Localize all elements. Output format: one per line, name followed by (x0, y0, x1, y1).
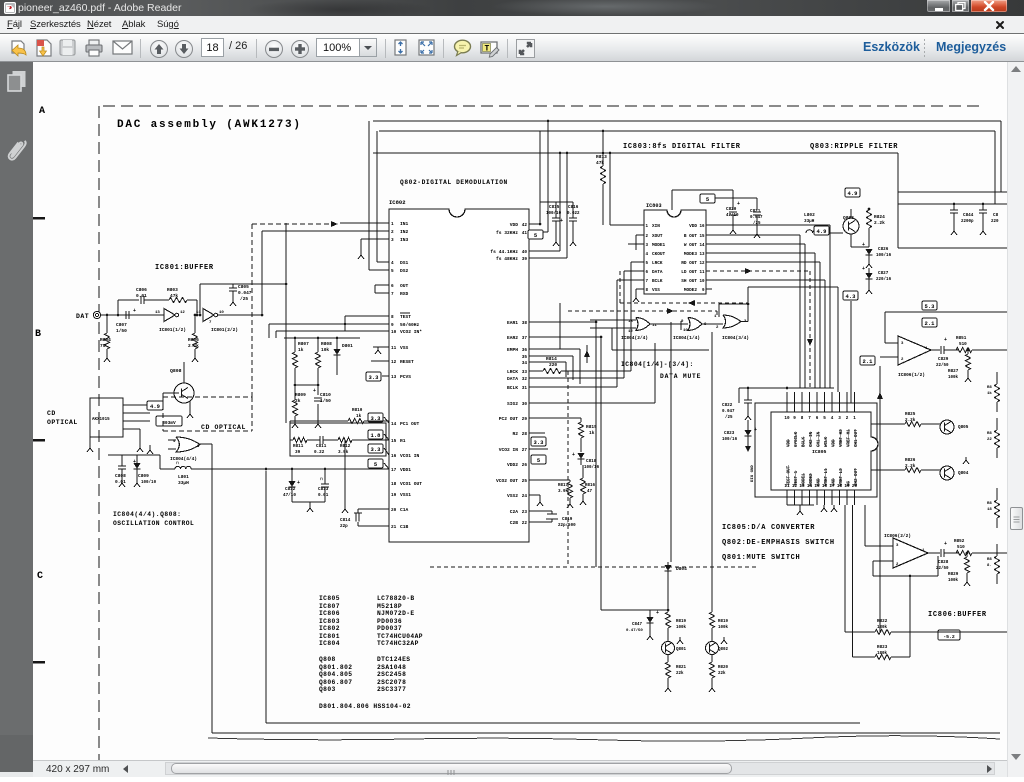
svg-text:C811: C811 (316, 444, 327, 449)
svg-text:C818: C818 (586, 459, 597, 464)
svg-text:R825: R825 (905, 412, 916, 417)
svg-text:IC804(2/4): IC804(2/4) (621, 335, 648, 341)
svg-text:47: 47 (587, 490, 593, 494)
svg-text:10: 10 (391, 330, 397, 335)
svg-text:R808: R808 (321, 341, 332, 347)
svg-text:+: + (560, 218, 563, 224)
svg-text:3.3: 3.3 (534, 439, 545, 446)
svg-text:303mV: 303mV (162, 420, 176, 426)
svg-text:CD OPTICAL: CD OPTICAL (201, 424, 246, 431)
svg-text:DATA MUTE: DATA MUTE (660, 373, 701, 380)
svg-text:D801.804.806 HSS104-02: D801.804.806 HSS104-02 (319, 703, 411, 710)
svg-text:VCO2 IN: VCO2 IN (499, 447, 519, 453)
svg-text:Q803: Q803 (319, 686, 336, 693)
svg-text:C815: C815 (549, 205, 560, 210)
svg-text:75: 75 (100, 343, 106, 349)
svg-text:1: 1 (391, 222, 394, 227)
svg-text:A: A (39, 106, 45, 117)
svg-text:C810: C810 (320, 392, 331, 398)
svg-text:Q805: Q805 (958, 425, 969, 430)
svg-text:fs 32KHz: fs 32KHz (496, 230, 518, 236)
svg-text:28: 28 (522, 432, 528, 437)
svg-text:IN3: IN3 (400, 237, 409, 243)
svg-text:CKOUT: CKOUT (652, 252, 666, 257)
svg-text:50/60Hz: 50/60Hz (400, 322, 420, 328)
svg-text:+: + (944, 337, 947, 343)
svg-text:B OUT: B OUT (684, 234, 698, 239)
svg-text:C: C (37, 571, 43, 582)
svg-text:W OUT: W OUT (684, 243, 698, 248)
svg-text:OSCILLATION CONTROL: OSCILLATION CONTROL (113, 520, 194, 527)
svg-text:EAR2: EAR2 (507, 335, 518, 341)
svg-text:21: 21 (391, 525, 397, 530)
svg-text:C844: C844 (963, 213, 974, 218)
svg-text:32: 32 (522, 377, 528, 382)
svg-text:L801: L801 (178, 474, 189, 480)
svg-text:R8: R8 (987, 502, 992, 506)
svg-text:33: 33 (522, 370, 528, 375)
svg-text:C828: C828 (938, 560, 949, 565)
svg-text:IC806(1/2): IC806(1/2) (898, 372, 925, 378)
svg-text:R826: R826 (905, 458, 916, 463)
svg-text:Q808: Q808 (170, 368, 182, 374)
svg-text:+: + (944, 541, 947, 547)
svg-text:R803: R803 (167, 287, 178, 293)
svg-text:AKX1015: AKX1015 (92, 418, 110, 422)
svg-text:100k: 100k (676, 625, 687, 630)
svg-text:10k: 10k (321, 347, 329, 353)
svg-text:R827: R827 (948, 369, 959, 374)
svg-text:510: 510 (959, 342, 967, 347)
svg-text:PD0037: PD0037 (377, 625, 402, 632)
svg-text:R851: R851 (956, 336, 967, 341)
svg-text:D804: D804 (676, 566, 687, 572)
svg-text:13: 13 (699, 253, 705, 257)
svg-text:18: 18 (391, 482, 397, 487)
svg-text:R811: R811 (293, 444, 304, 449)
svg-text:R8: R8 (987, 432, 992, 436)
svg-text:6: 6 (816, 416, 819, 421)
svg-text:12: 12 (699, 262, 705, 266)
svg-text:+: + (656, 610, 659, 616)
svg-text:1.8: 1.8 (371, 432, 382, 439)
svg-text:C827: C827 (878, 271, 889, 276)
svg-text:22/50: 22/50 (936, 566, 949, 571)
svg-text:16: 16 (391, 454, 397, 459)
svg-text:+: + (754, 427, 757, 433)
svg-text:22p/500: 22p/500 (558, 523, 576, 528)
svg-text:11: 11 (652, 324, 657, 328)
svg-text:IC806(2/2): IC806(2/2) (884, 533, 911, 539)
svg-text:0.022: 0.022 (567, 212, 580, 216)
svg-text:SIG2: SIG2 (507, 401, 518, 407)
svg-text:IC801:BUFFER: IC801:BUFFER (155, 264, 214, 272)
svg-text:C822: C822 (722, 403, 733, 408)
svg-text:100k: 100k (948, 375, 959, 380)
svg-text:C2A: C2A (510, 509, 519, 515)
svg-text:12: 12 (180, 311, 185, 315)
svg-text:IN2: IN2 (400, 229, 409, 235)
svg-text:R1: R1 (400, 438, 406, 444)
svg-text:NJM072D-E: NJM072D-E (377, 610, 415, 617)
svg-text:C812: C812 (285, 487, 296, 492)
svg-text:3: 3 (838, 416, 841, 421)
svg-text:XOUT: XOUT (652, 234, 663, 239)
svg-text:12: 12 (391, 360, 397, 365)
svg-text:C8: C8 (993, 213, 999, 218)
svg-text:11: 11 (784, 484, 790, 489)
svg-text:+: + (572, 452, 575, 458)
svg-text:10: 10 (784, 416, 790, 421)
svg-text:B: B (35, 329, 41, 340)
svg-text:2SA1048: 2SA1048 (377, 664, 406, 671)
svg-text:-5.2: -5.2 (943, 634, 955, 640)
svg-text:220: 220 (991, 220, 999, 224)
svg-text:22k: 22k (718, 671, 726, 676)
svg-text:3.9k: 3.9k (558, 489, 569, 494)
svg-text:R824: R824 (874, 214, 885, 220)
svg-text:VSS2: VSS2 (507, 493, 518, 499)
svg-text:22p: 22p (340, 524, 348, 529)
svg-text:220/16: 220/16 (876, 277, 892, 282)
svg-text:+: + (313, 388, 316, 394)
svg-text:14: 14 (807, 484, 813, 489)
svg-text:40: 40 (522, 250, 528, 255)
svg-text:IC805: IC805 (319, 595, 340, 602)
svg-text:OUT: OUT (400, 283, 409, 289)
svg-text:L802: L802 (804, 212, 815, 218)
svg-text:4: 4 (831, 416, 834, 421)
svg-text:22/50: 22/50 (936, 363, 949, 368)
svg-text:C807: C807 (116, 322, 127, 328)
svg-text:1: 1 (853, 416, 856, 421)
svg-text:30: 30 (522, 402, 528, 407)
svg-text:2SC3377: 2SC3377 (377, 686, 406, 693)
svg-text:8: 8 (801, 416, 804, 421)
svg-text:MODE2: MODE2 (684, 288, 698, 293)
svg-text:24: 24 (522, 494, 528, 499)
svg-text:LRCK: LRCK (507, 369, 518, 375)
svg-text:BCLK: BCLK (507, 385, 518, 391)
svg-text:Q804.805: Q804.805 (319, 671, 352, 678)
svg-text:M5218P: M5218P (377, 603, 402, 610)
svg-text:R820: R820 (718, 666, 729, 670)
svg-text:C814: C814 (340, 518, 351, 523)
svg-text:2200p: 2200p (961, 220, 974, 224)
svg-text:5.3: 5.3 (925, 303, 936, 310)
svg-text:R8: R8 (987, 386, 992, 390)
svg-text:15: 15 (699, 235, 705, 239)
svg-text:R8: R8 (987, 558, 992, 562)
svg-text:12: 12 (792, 484, 798, 489)
svg-text:PC1 OUT: PC1 OUT (400, 421, 420, 427)
svg-text:16: 16 (699, 225, 705, 229)
svg-text:DS1: DS1 (400, 260, 409, 266)
svg-text:2: 2 (846, 416, 849, 421)
svg-text:12: 12 (628, 330, 633, 334)
svg-text:11: 11 (699, 271, 705, 275)
svg-text:DS2: DS2 (400, 268, 409, 274)
svg-text:C809: C809 (138, 473, 149, 479)
svg-text:31: 31 (522, 386, 528, 391)
svg-text:IN1: IN1 (400, 221, 409, 227)
svg-text:34: 34 (522, 361, 528, 366)
svg-text:R852: R852 (954, 539, 965, 544)
svg-text:+: + (737, 201, 740, 207)
svg-text:1k: 1k (356, 414, 362, 419)
svg-text:4.9: 4.9 (817, 228, 827, 235)
svg-text:IC805: IC805 (812, 449, 827, 455)
svg-text:IC807: IC807 (319, 603, 340, 610)
svg-text:Q802:DE-EMPHASIS SWITCH: Q802:DE-EMPHASIS SWITCH (722, 539, 835, 547)
svg-text:DATA: DATA (507, 376, 518, 382)
svg-text:R814: R814 (546, 356, 557, 362)
svg-text:R817: R817 (558, 484, 569, 488)
svg-text:VDD1: VDD1 (400, 467, 411, 473)
svg-text:PD0036: PD0036 (377, 618, 402, 625)
svg-text:27: 27 (522, 448, 528, 453)
svg-text:C1A: C1A (400, 507, 409, 513)
svg-text:IC802: IC802 (389, 199, 406, 206)
svg-text:⊓: ⊓ (320, 477, 323, 482)
svg-text:1/50: 1/50 (116, 328, 127, 334)
svg-text:100/10: 100/10 (141, 480, 157, 485)
svg-text:VDD2: VDD2 (507, 462, 518, 468)
svg-text:47/10: 47/10 (283, 493, 296, 498)
svg-text:4.9: 4.9 (848, 190, 858, 197)
svg-text:IC804(4/4).Q808:: IC804(4/4).Q808: (113, 511, 181, 518)
svg-text:VCO2 IN*: VCO2 IN* (400, 329, 422, 335)
svg-text:Q801.802: Q801.802 (319, 664, 352, 671)
svg-text:39: 39 (522, 257, 528, 262)
svg-text:TEST: TEST (400, 314, 411, 320)
svg-text:13: 13 (799, 484, 805, 489)
svg-text:3.3: 3.3 (369, 374, 380, 381)
svg-text:IC803: IC803 (319, 618, 340, 625)
svg-text:0.047: 0.047 (238, 290, 252, 296)
svg-text:IC804(3/4): IC804(3/4) (722, 335, 749, 341)
svg-text:2.1: 2.1 (863, 358, 874, 365)
svg-text:RXD: RXD (400, 291, 409, 297)
svg-text:16: 16 (822, 484, 828, 489)
svg-text:PCVS: PCVS (400, 374, 411, 380)
svg-text:36: 36 (522, 348, 528, 353)
svg-text:DIG GND: DIG GND (751, 465, 755, 482)
svg-text:IC803:8fs DIGITAL FILTER: IC803:8fs DIGITAL FILTER (623, 143, 741, 151)
svg-text:IC802: IC802 (319, 625, 340, 632)
svg-text:C823: C823 (724, 431, 735, 436)
svg-text:LC78820-B: LC78820-B (377, 595, 415, 602)
svg-text:PC2 OUT: PC2 OUT (499, 416, 519, 422)
svg-text:18: 18 (837, 484, 843, 489)
svg-text:TC74HCU04AP: TC74HCU04AP (377, 633, 423, 640)
svg-text:100k: 100k (718, 625, 729, 630)
svg-text:R807: R807 (298, 341, 309, 347)
svg-text:10: 10 (699, 280, 705, 284)
svg-text:R816: R816 (585, 484, 596, 488)
svg-text:19: 19 (391, 493, 397, 498)
svg-text:3: 3 (391, 238, 394, 243)
svg-text:26: 26 (522, 463, 528, 468)
svg-text:XIN: XIN (652, 224, 660, 229)
svg-text:8: 8 (391, 315, 394, 320)
svg-text:13: 13 (628, 320, 633, 324)
svg-text:R819: R819 (676, 620, 687, 624)
svg-text:VDD: VDD (510, 222, 519, 228)
svg-text:22k: 22k (676, 671, 684, 676)
svg-text:R823: R823 (877, 645, 888, 650)
svg-text:22: 22 (987, 438, 992, 442)
svg-text:100/16: 100/16 (584, 465, 600, 470)
svg-text:17: 17 (391, 468, 397, 473)
svg-text:100/16: 100/16 (876, 253, 892, 258)
svg-text:C806: C806 (136, 287, 147, 293)
svg-text:25: 25 (522, 479, 528, 484)
svg-text:42: 42 (522, 223, 528, 228)
svg-text:14: 14 (699, 244, 705, 248)
svg-text:SH OUT: SH OUT (681, 279, 697, 284)
svg-text:C2B: C2B (510, 520, 519, 526)
svg-text:+: + (297, 480, 300, 486)
svg-text:C819: C819 (562, 517, 573, 522)
svg-text:4.9: 4.9 (150, 403, 160, 410)
svg-text:VDD: VDD (689, 224, 697, 229)
svg-text:0.47/50: 0.47/50 (626, 628, 643, 633)
svg-text:D801: D801 (342, 343, 353, 349)
svg-text:C847: C847 (632, 623, 643, 627)
svg-text:2.2k: 2.2k (874, 220, 885, 226)
svg-text:3.3: 3.3 (371, 446, 382, 453)
svg-text:100/10: 100/10 (546, 211, 562, 216)
svg-text:IC806: IC806 (319, 610, 340, 617)
svg-text:13: 13 (391, 375, 397, 380)
svg-text:14: 14 (391, 422, 397, 427)
svg-text:100/16: 100/16 (722, 437, 738, 442)
svg-text:VSS: VSS (400, 345, 409, 351)
svg-text:IC801: IC801 (319, 633, 340, 640)
svg-text:8.: 8. (987, 564, 992, 568)
svg-text:9: 9 (391, 323, 394, 328)
svg-text:0.01: 0.01 (318, 493, 329, 498)
svg-text:C805: C805 (238, 284, 249, 290)
svg-text:1k: 1k (987, 391, 992, 396)
svg-text:+: + (862, 266, 865, 272)
svg-text:BCLK: BCLK (652, 279, 663, 284)
svg-text:LD OUT: LD OUT (681, 270, 697, 275)
svg-text:IC804(4/4): IC804(4/4) (170, 456, 197, 462)
svg-text:Q802: Q802 (718, 648, 729, 652)
svg-text:4: 4 (391, 261, 394, 266)
svg-text:18: 18 (987, 508, 992, 512)
svg-text:OPTICAL: OPTICAL (47, 419, 78, 426)
svg-text:7: 7 (808, 416, 811, 421)
svg-text:1k: 1k (298, 347, 304, 353)
svg-text:2: 2 (391, 230, 394, 235)
svg-text:23: 23 (522, 510, 528, 515)
svg-text:DAT: DAT (76, 313, 89, 320)
svg-text:11: 11 (391, 346, 397, 351)
svg-text:RD OUT: RD OUT (681, 261, 697, 266)
svg-text:R2: R2 (512, 431, 518, 437)
svg-text:DTC124ES: DTC124ES (377, 656, 410, 663)
svg-text:VCO1 OUT: VCO1 OUT (400, 481, 422, 487)
svg-text:0.047: 0.047 (722, 410, 735, 414)
svg-text:R810: R810 (352, 408, 363, 413)
svg-text:33μH: 33μH (178, 480, 189, 486)
svg-text:5: 5 (391, 269, 394, 274)
svg-text:VSS: VSS (652, 288, 660, 293)
svg-text:37: 37 (522, 336, 528, 341)
svg-text:41: 41 (522, 231, 528, 236)
svg-text:LRCK: LRCK (652, 261, 663, 266)
svg-text:fs 44.1KHz: fs 44.1KHz (490, 249, 518, 255)
svg-text:C813: C813 (318, 487, 329, 492)
svg-text:20: 20 (391, 508, 397, 513)
svg-text:C1B: C1B (400, 524, 409, 530)
svg-text:15: 15 (814, 484, 820, 489)
svg-text:+: + (862, 242, 865, 248)
svg-text:Q801:MUTE SWITCH: Q801:MUTE SWITCH (722, 554, 800, 562)
svg-text:IC806:BUFFER: IC806:BUFFER (928, 611, 987, 619)
svg-text:2.1: 2.1 (925, 320, 936, 327)
svg-text:Q802-DIGITAL DEMODULATION: Q802-DIGITAL DEMODULATION (400, 179, 508, 186)
svg-text:C826: C826 (878, 247, 889, 252)
svg-text:C820: C820 (726, 207, 737, 212)
svg-text:15: 15 (391, 439, 397, 444)
svg-text:IC804(1/4): IC804(1/4) (673, 335, 700, 341)
svg-text:Q804: Q804 (958, 471, 969, 476)
svg-text:R815: R815 (586, 424, 597, 430)
svg-text:IC803: IC803 (646, 203, 662, 209)
svg-text:13: 13 (155, 311, 160, 315)
svg-text:510: 510 (957, 545, 965, 550)
svg-text:C829: C829 (938, 357, 949, 362)
svg-text:R821: R821 (676, 666, 687, 670)
svg-text:⊓: ⊓ (176, 461, 179, 466)
svg-text:7: 7 (391, 292, 394, 297)
svg-text:EMPH: EMPH (507, 347, 518, 353)
svg-text:R822: R822 (877, 619, 888, 624)
svg-text:3.9k: 3.9k (338, 450, 349, 455)
svg-text:19: 19 (844, 484, 850, 489)
svg-text:VSS1: VSS1 (400, 492, 411, 498)
svg-text:MODE1: MODE1 (652, 243, 666, 248)
svg-text:MODE3: MODE3 (684, 252, 698, 257)
svg-text:33μH: 33μH (804, 219, 815, 224)
svg-text:/25: /25 (725, 415, 733, 420)
svg-text:RESET: RESET (400, 359, 414, 365)
svg-text:47k: 47k (170, 293, 178, 299)
svg-text:Q808: Q808 (319, 656, 336, 663)
svg-text:22: 22 (522, 521, 528, 526)
svg-text:T: T (485, 45, 490, 54)
svg-text:0.22: 0.22 (314, 450, 325, 455)
svg-text:IC801(2/2): IC801(2/2) (211, 327, 238, 333)
svg-text:38: 38 (522, 321, 528, 326)
svg-text:R819: R819 (718, 620, 729, 624)
svg-text:R829: R829 (948, 572, 959, 577)
svg-text:Q806.807: Q806.807 (319, 679, 352, 686)
svg-text:Q803:RIPPLE FILTER: Q803:RIPPLE FILTER (810, 143, 898, 151)
svg-text:DATA: DATA (652, 270, 663, 275)
svg-text:IC801(1/2): IC801(1/2) (159, 327, 186, 333)
svg-text:IC804[1/4]-[3/4]:: IC804[1/4]-[3/4]: (621, 361, 694, 368)
svg-text:C808: C808 (115, 473, 126, 479)
svg-text:35: 35 (522, 355, 528, 360)
svg-text:180k: 180k (877, 625, 888, 630)
svg-text:IC804: IC804 (319, 640, 340, 647)
svg-text:VCO1 IN: VCO1 IN (400, 453, 420, 459)
